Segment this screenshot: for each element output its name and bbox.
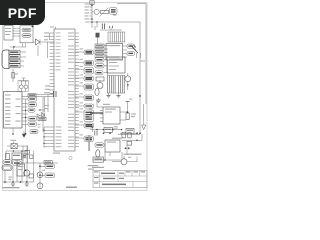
diode D3 [41,113,45,118]
capacitor C6 [23,155,26,157]
net labels [89,108,93,109]
resistor R5 [95,58,104,62]
wire thick [90,112,103,114]
op-amp U5A box [103,107,120,124]
ground triangle [22,134,26,138]
wire [127,73,129,76]
wire vertical [91,2,93,29]
transistor T3 [94,9,99,14]
diode D1 [36,39,41,45]
title block text [94,171,99,172]
label under IC [53,153,60,154]
op-amp U5B box [105,140,120,152]
net labels top-right [85,3,90,4]
component box3 [93,157,104,162]
capacitor C4 [122,132,125,138]
wire [7,145,11,147]
wire [39,163,41,188]
label above title block [88,169,94,170]
component box [96,77,104,81]
title block table [93,171,147,188]
wire [120,132,137,134]
wire U1 left pin stubs [50,32,55,34]
crystal Y1 circle [125,76,131,82]
IC U1 top tick [55,27,57,30]
resistor R7 [95,71,103,75]
LED TX [95,88,99,95]
ground [25,183,29,185]
wire U3 bottom [12,128,14,134]
component box2 [126,128,134,133]
pad [110,8,118,15]
wire [104,152,106,160]
connector footprint hatch 2 [107,76,109,94]
net labels left of U1 [44,32,49,33]
ground [118,93,120,96]
wire [136,53,138,58]
crystal Q2 circles [18,81,29,92]
header stub wires [75,51,84,53]
IC U1 pin label text [68,32,74,33]
resistor R6 [95,64,104,68]
wire long top [117,3,146,5]
pad K2 [45,173,55,178]
component box [104,127,112,132]
capacitor C8 [94,131,96,136]
ground arrow down [142,125,146,130]
wire [100,29,122,31]
wire [42,97,44,132]
node label [39,109,40,110]
ferrite bead L1 [12,73,15,79]
wire vertical bus [25,99,27,134]
transistor T2 [39,174,41,176]
wire [21,89,23,92]
capacitor C10 [53,91,55,97]
diode D2 box [11,144,17,149]
wire [100,110,103,112]
resistor R13 [3,160,12,164]
component top box [90,1,94,5]
component [25,150,29,154]
resistor R15 [44,161,52,164]
wire U1 lower-left pin stubs [44,126,54,128]
wire [38,124,41,126]
component box [12,153,22,160]
wire bottom rail [90,129,122,131]
wire [37,46,39,57]
wire [6,150,28,152]
pad K1 [45,164,55,169]
connector X2 USB shell [2,50,9,69]
resistor R10 [101,10,109,13]
wire [12,69,14,82]
LED L indicator [121,159,127,165]
header net labels [80,47,84,50]
capacitor C13 [109,26,111,28]
pad [127,44,135,48]
wire [22,43,24,47]
resistor R12 [95,143,104,147]
rotated net name [88,135,90,151]
ground [98,98,100,100]
resistor R11 vertical [126,113,129,120]
ground [11,183,15,185]
connector X2 USB pins [9,50,20,54]
ground arrow left [37,114,40,117]
connector pads U3 column [28,97,37,101]
caption row [3,187,20,188]
wire [118,134,140,136]
wire [122,139,142,141]
component marks [114,126,119,127]
caption above title block [92,167,104,168]
IC U4 box [106,44,123,61]
IC U1 ATmega328 body [54,29,75,151]
power flag VCC [126,101,130,103]
wire bottom rail [3,181,35,183]
transistor T1 circle [24,170,30,176]
pad [30,130,38,134]
capacitor C12 [101,24,103,30]
diode Z1 [131,45,137,51]
connector headers right column [84,50,94,55]
resistor R3 [38,117,46,120]
wire [33,151,35,182]
caption bottom center [66,187,77,188]
wire verticals K [22,146,24,163]
wire [20,51,26,53]
wire U3 right pin stubs [22,96,28,98]
junction [92,126,94,128]
wire [4,171,6,183]
wire long second [85,21,140,23]
component X1 power block [4,26,13,41]
wire [120,111,127,113]
wire [28,93,54,95]
component small box [127,141,132,145]
component dark [96,33,99,37]
net mark [113,15,117,16]
marks2 [9,177,13,178]
junction dots [103,133,105,135]
wire [44,97,46,112]
resistor network RN4 [95,44,104,47]
IC U2 box [107,57,125,73]
wire [13,28,20,30]
wire [104,59,108,61]
wire [49,33,51,40]
label [11,140,17,141]
connector USB footprint hatch [107,32,109,42]
net label row [124,154,142,155]
wire [143,104,145,121]
LED RX [97,83,103,89]
component [6,154,10,160]
caption text [88,165,99,166]
PDF badge [0,0,45,25]
wire [90,3,93,5]
wire [97,106,103,108]
ring [69,156,72,159]
junction dot [13,46,15,48]
wire [123,45,128,47]
resistor R100 [28,94,36,97]
diode Z2 [133,48,139,54]
wire U1 right pin stubs [75,32,79,34]
wire verticals [11,160,13,165]
capacitor double [2,165,12,171]
ground [108,93,110,96]
transistor T4 [37,183,43,189]
marks [23,154,27,155]
component F1 fuse block [20,26,33,43]
junction pair [125,147,127,149]
LED ON [96,150,100,158]
IC U3 pin labels [5,94,11,95]
IC U3 USB interface [4,92,23,129]
wire rail [93,159,122,161]
net label [140,61,145,62]
IC regulator box [17,164,25,176]
schematic frame border [3,3,148,191]
resistor R14 [13,161,22,165]
wire [22,162,58,164]
junction dot [31,25,33,27]
label [42,170,45,171]
component [29,174,34,178]
